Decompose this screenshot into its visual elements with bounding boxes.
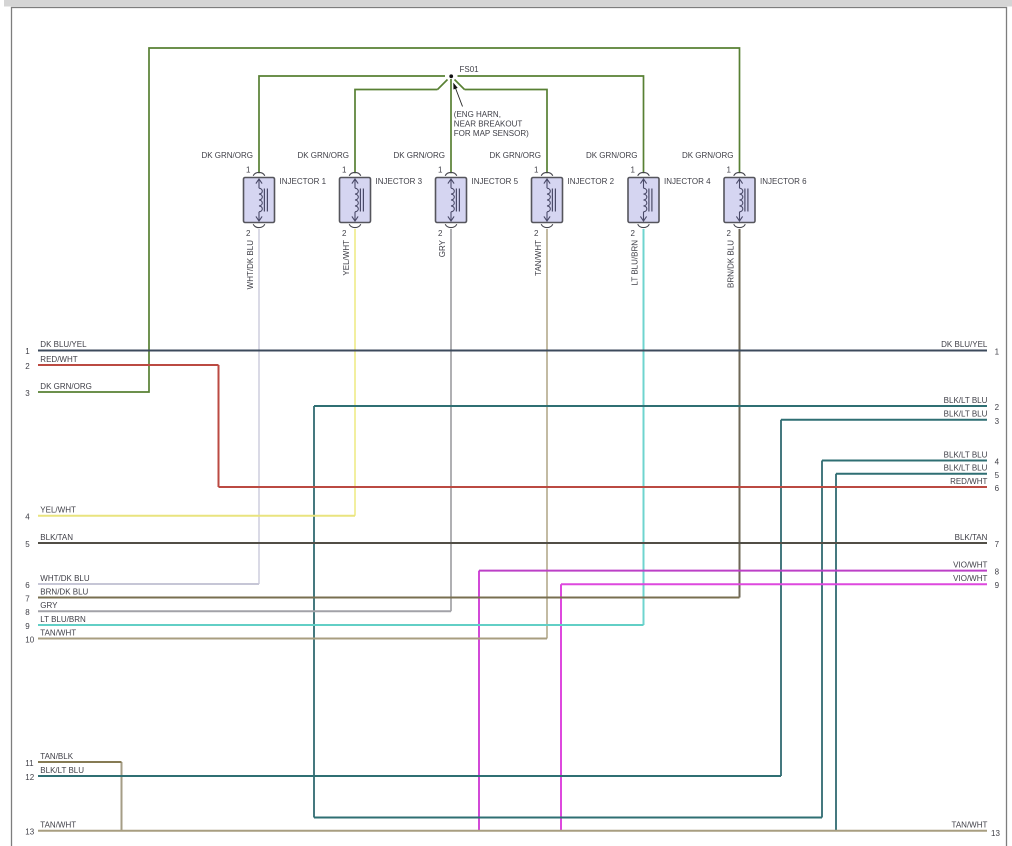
svg-text:6: 6: [25, 581, 30, 590]
svg-text:NEAR BREAKOUT: NEAR BREAKOUT: [454, 120, 523, 129]
svg-text:DK GRN/ORG: DK GRN/ORG: [586, 151, 638, 160]
svg-text:10: 10: [25, 635, 34, 644]
svg-text:13: 13: [991, 829, 1000, 838]
svg-text:2: 2: [246, 229, 251, 238]
svg-text:2: 2: [534, 229, 539, 238]
svg-text:VIO/WHT: VIO/WHT: [953, 560, 987, 569]
svg-text:FOR MAP SENSOR): FOR MAP SENSOR): [454, 129, 529, 138]
svg-text:INJECTOR 2: INJECTOR 2: [568, 177, 615, 186]
svg-text:7: 7: [25, 594, 30, 603]
svg-text:1: 1: [727, 165, 732, 174]
svg-text:DK GRN/ORG: DK GRN/ORG: [393, 151, 445, 160]
svg-text:RED/WHT: RED/WHT: [950, 477, 987, 486]
svg-text:YEL/WHT: YEL/WHT: [342, 240, 351, 276]
svg-text:WHT/DK BLU: WHT/DK BLU: [246, 240, 255, 290]
svg-text:VIO/WHT: VIO/WHT: [953, 574, 987, 583]
svg-text:BLK/TAN: BLK/TAN: [955, 533, 988, 542]
svg-text:DK BLU/YEL: DK BLU/YEL: [40, 340, 87, 349]
svg-text:1: 1: [995, 347, 1000, 356]
svg-text:6: 6: [995, 484, 1000, 493]
svg-text:TAN/WHT: TAN/WHT: [534, 240, 543, 276]
svg-text:1: 1: [631, 165, 636, 174]
svg-text:11: 11: [25, 759, 34, 768]
svg-text:DK GRN/ORG: DK GRN/ORG: [297, 151, 349, 160]
svg-text:BLK/LT BLU: BLK/LT BLU: [944, 450, 988, 459]
svg-text:8: 8: [25, 608, 30, 617]
svg-text:3: 3: [995, 417, 1000, 426]
svg-text:TAN/BLK: TAN/BLK: [40, 752, 73, 761]
svg-text:BLK/LT BLU: BLK/LT BLU: [944, 464, 988, 473]
svg-text:9: 9: [995, 581, 1000, 590]
svg-text:13: 13: [25, 828, 34, 837]
svg-text:2: 2: [438, 229, 443, 238]
svg-text:1: 1: [25, 347, 30, 356]
svg-text:INJECTOR 3: INJECTOR 3: [376, 177, 423, 186]
svg-text:4: 4: [995, 458, 1000, 467]
svg-text:BLK/LT BLU: BLK/LT BLU: [40, 766, 84, 775]
svg-text:RED/WHT: RED/WHT: [40, 355, 77, 364]
svg-text:FS01: FS01: [460, 65, 480, 74]
svg-text:DK BLU/YEL: DK BLU/YEL: [941, 340, 988, 349]
svg-text:BRN/DK BLU: BRN/DK BLU: [726, 240, 735, 288]
svg-text:BLK/LT BLU: BLK/LT BLU: [944, 396, 988, 405]
svg-text:2: 2: [995, 403, 1000, 412]
svg-text:7: 7: [995, 540, 1000, 549]
svg-text:LT BLU/BRN: LT BLU/BRN: [40, 615, 86, 624]
svg-text:YEL/WHT: YEL/WHT: [40, 506, 76, 515]
svg-text:INJECTOR 6: INJECTOR 6: [760, 177, 807, 186]
svg-text:DK GRN/ORG: DK GRN/ORG: [40, 382, 92, 391]
svg-text:1: 1: [438, 165, 443, 174]
svg-text:INJECTOR 5: INJECTOR 5: [472, 177, 519, 186]
svg-text:1: 1: [246, 165, 251, 174]
svg-text:BRN/DK BLU: BRN/DK BLU: [40, 587, 88, 596]
svg-text:5: 5: [25, 540, 30, 549]
svg-text:(ENG HARN,: (ENG HARN,: [454, 110, 501, 119]
svg-text:GRY: GRY: [438, 239, 447, 257]
svg-text:LT BLU/BRN: LT BLU/BRN: [630, 240, 639, 286]
svg-text:1: 1: [342, 165, 347, 174]
svg-text:12: 12: [25, 773, 34, 782]
svg-text:8: 8: [995, 568, 1000, 577]
svg-text:DK GRN/ORG: DK GRN/ORG: [489, 151, 541, 160]
svg-text:3: 3: [25, 389, 30, 398]
svg-text:5: 5: [995, 471, 1000, 480]
svg-text:2: 2: [631, 229, 636, 238]
svg-text:2: 2: [342, 229, 347, 238]
svg-text:INJECTOR 4: INJECTOR 4: [664, 177, 711, 186]
svg-text:INJECTOR 1: INJECTOR 1: [280, 177, 327, 186]
svg-text:4: 4: [25, 513, 30, 522]
svg-text:TAN/WHT: TAN/WHT: [40, 628, 76, 637]
svg-text:2: 2: [25, 362, 30, 371]
svg-text:DK GRN/ORG: DK GRN/ORG: [201, 151, 253, 160]
svg-text:TAN/WHT: TAN/WHT: [952, 821, 988, 830]
svg-text:GRY: GRY: [40, 601, 58, 610]
svg-text:BLK/LT BLU: BLK/LT BLU: [944, 410, 988, 419]
svg-text:BLK/TAN: BLK/TAN: [40, 533, 73, 542]
svg-text:9: 9: [25, 622, 30, 631]
svg-text:DK GRN/ORG: DK GRN/ORG: [682, 151, 734, 160]
svg-text:WHT/DK BLU: WHT/DK BLU: [40, 574, 90, 583]
svg-text:1: 1: [534, 165, 539, 174]
svg-text:2: 2: [727, 229, 732, 238]
svg-text:TAN/WHT: TAN/WHT: [40, 821, 76, 830]
